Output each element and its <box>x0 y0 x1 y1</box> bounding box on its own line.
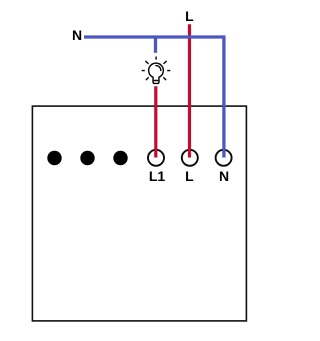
wire N (blue, supply neutral: horizontal run then down to terminal N) <box>84 37 224 158</box>
terminal L1 <box>148 150 164 166</box>
terminal N <box>216 150 232 166</box>
ray SE <box>163 77 166 80</box>
ray SW <box>146 77 149 80</box>
terminal L <box>182 150 198 166</box>
svg-text:L1: L1 <box>149 168 166 184</box>
ray NE <box>164 61 167 64</box>
ray W <box>142 70 145 72</box>
bulb inner highlight arc <box>156 66 161 71</box>
bulb globe and neck <box>149 63 164 80</box>
bulb cap <box>153 81 159 84</box>
indicator dot 1 <box>47 151 61 165</box>
ray NW <box>145 61 148 64</box>
device box <box>32 106 246 321</box>
svg-text:L: L <box>185 8 194 24</box>
indicator dot 3 <box>113 151 127 165</box>
wire L (red, supply live down to terminal L) <box>188 24 191 157</box>
ray N <box>155 57 157 60</box>
svg-text:N: N <box>72 27 82 43</box>
svg-text:N: N <box>219 168 229 184</box>
svg-text:L: L <box>185 168 194 184</box>
lamp (light bulb with rays) <box>142 57 171 84</box>
indicator dot 2 <box>80 151 94 165</box>
wire stub from N line to lamp (blue) <box>154 37 157 53</box>
ray E <box>167 70 170 72</box>
wire lamp to terminal L1 (red) <box>154 86 157 157</box>
